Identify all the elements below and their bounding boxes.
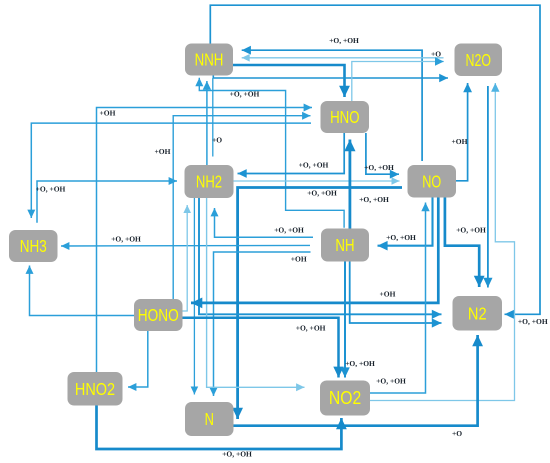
wire NH to HNO (344, 140, 355, 229)
node NNH (185, 44, 233, 76)
wire NO2 to N2O (via right) (370, 83, 515, 401)
node HNO (321, 101, 370, 133)
wire HNO to NO (366, 133, 399, 179)
svg-text:HNO2: HNO2 (75, 379, 115, 399)
svg-text:N: N (205, 409, 214, 429)
wire NNH to N2 (top border) (210, 5, 540, 319)
node N (185, 402, 234, 436)
svg-text:NO: NO (422, 171, 441, 191)
wire NH2 to NO2 (207, 198, 305, 391)
wire NH to N (210, 252, 311, 396)
wire HONO to HNO2 (128, 331, 148, 391)
node NH2 (185, 165, 234, 198)
svg-text:+O, +OH: +O, +OH (518, 317, 548, 326)
node N2O (455, 44, 503, 77)
wire HNO to NH3 (27, 123, 311, 218)
wire NO to NNH (242, 46, 422, 161)
wire NH3 to NH2 (37, 177, 177, 223)
svg-text:+O: +O (212, 136, 222, 145)
svg-text:+O: +O (452, 429, 462, 438)
wire HONO to NH3 (26, 266, 135, 316)
node NH (321, 229, 369, 262)
wire HNO to N2O (352, 57, 444, 101)
svg-text:+O, +OH: +O, +OH (222, 450, 252, 459)
svg-text:NH3: NH3 (20, 236, 47, 256)
node N2 (453, 296, 503, 331)
svg-text:NH2: NH2 (196, 172, 222, 192)
svg-text:NNH: NNH (195, 50, 224, 70)
node NO (408, 165, 457, 198)
wire HONO to NO2 (183, 318, 344, 378)
svg-text:+O: +O (431, 50, 441, 59)
wire NH to NNH (195, 78, 344, 228)
svg-text:+OH: +OH (380, 290, 396, 299)
wire NO to N2O (456, 83, 472, 181)
wire NO to N2 (445, 198, 485, 288)
svg-text:HONO: HONO (138, 305, 179, 325)
svg-text:+OH: +OH (100, 109, 116, 118)
wire NNH to HNO (233, 65, 350, 97)
wire HNO2 to HNO (97, 104, 313, 373)
wire NO to HONO (191, 198, 438, 309)
svg-text:+O, +OH: +O, +OH (456, 226, 486, 235)
wire NO to NH (378, 198, 433, 251)
svg-text:+O, +OH: +O, +OH (386, 233, 416, 242)
svg-text:+O, +OH: +O, +OH (359, 195, 389, 204)
svg-text:+O, +OH: +O, +OH (307, 189, 337, 198)
wire NO2 to NO (370, 203, 430, 394)
svg-text:+O, +OH: +O, +OH (364, 163, 394, 172)
wire NH2 to N (191, 198, 199, 395)
wire NH to NO2 (340, 262, 350, 378)
svg-text:HNO: HNO (330, 107, 359, 127)
svg-text:+O, +OH: +O, +OH (230, 90, 260, 99)
svg-text:N2O: N2O (466, 50, 492, 70)
svg-text:NO2: NO2 (329, 387, 361, 408)
node NO2 (320, 381, 370, 416)
wire NH2 to NO (234, 177, 400, 185)
wire N2O to NNH (242, 54, 444, 62)
svg-text:+O, +OH: +O, +OH (299, 161, 329, 170)
wire N to N2 (234, 335, 484, 426)
wire NH2 to N2 (199, 198, 442, 319)
node HONO (134, 299, 183, 331)
wire HNO2 to NO2 (97, 406, 347, 450)
wire N2O to N2 (483, 86, 492, 288)
node HNO2 (68, 372, 123, 406)
node NH3 (9, 230, 58, 262)
svg-text:+O, +OH: +O, +OH (376, 377, 406, 386)
wire NNH to NH2 (212, 78, 214, 157)
wire NH to NH3 (61, 242, 310, 250)
wire NH to NH2 (211, 208, 314, 237)
wire NH2 to NNH (203, 81, 211, 165)
svg-text:+O, +OH: +O, +OH (111, 235, 141, 244)
wire NH to N2 (350, 262, 442, 328)
svg-text:N2: N2 (468, 303, 487, 323)
svg-text:+O, +OH: +O, +OH (296, 323, 326, 332)
svg-text:+O, +OH: +O, +OH (345, 359, 375, 368)
svg-text:+O, +OH: +O, +OH (329, 36, 359, 45)
svg-text:+OH: +OH (452, 137, 468, 146)
svg-text:+O, +OH: +O, +OH (274, 226, 304, 235)
svg-text:+OH: +OH (291, 255, 307, 264)
svg-text:+O, +OH: +O, +OH (36, 185, 66, 194)
wire NNH to N2O (213, 74, 448, 82)
wire HNO to NH2 (238, 133, 345, 178)
wire HONO to HNO (173, 112, 310, 299)
svg-text:NH: NH (335, 235, 354, 255)
wire HONO to NH2 (183, 205, 192, 311)
svg-text:+OH: +OH (155, 147, 171, 156)
wire NO to N (232, 188, 402, 420)
